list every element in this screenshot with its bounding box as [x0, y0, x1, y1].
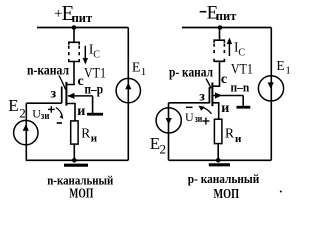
arrow inside E1 (down) right — [268, 82, 274, 88]
svg-text:E: E — [132, 61, 141, 76]
svg-text:1: 1 — [141, 66, 147, 78]
bottom rail left circuit — [26, 159, 129, 161]
wire: E1 branch left — [127, 28, 129, 161]
svg-text:R: R — [225, 126, 234, 141]
label Ic right — [234, 40, 245, 59]
svg-text:E: E — [8, 96, 18, 115]
arrow inside E2 (down) right — [166, 118, 172, 125]
wire: source lead to resistor left — [66, 104, 75, 121]
dashed box (channel region) VT1 left — [69, 42, 79, 61]
label -Eпит — [200, 3, 237, 24]
svg-text:и: и — [77, 104, 85, 119]
wire: gate lead left — [26, 102, 61, 104]
transistor VT1 gate bar right — [208, 87, 210, 103]
wire: E2 branch vertical left — [25, 103, 27, 160]
label E2 right — [150, 134, 166, 157]
substrate terminal down-wire left — [92, 96, 94, 113]
source E2 circle left — [14, 120, 38, 144]
resistor Rи left — [71, 121, 78, 144]
substrate lead with arrow (into channel) left — [68, 93, 93, 99]
arrow inside E2 (up) left — [23, 124, 29, 131]
curved arrow Uзи left — [56, 108, 63, 120]
wire: -Epit top rail right circuit — [182, 27, 271, 29]
substrate terminal down-wire right — [242, 96, 244, 107]
svg-text:зи: зи — [41, 110, 50, 122]
curved arrow Uзи right — [198, 106, 211, 114]
wire: resistor to bottom rail left — [73, 144, 75, 160]
wire: E1 branch right — [270, 28, 272, 161]
wire: gate lead right — [169, 102, 210, 104]
svg-text:p- канальный: p- канальный — [188, 172, 259, 186]
ground bar right — [209, 163, 230, 166]
pointer line from p-канал to channel — [206, 79, 211, 89]
svg-text:п–р: п–р — [85, 81, 104, 96]
wire: drain lead from box to channel — [66, 62, 74, 85]
transistor VT1 channel bar left — [65, 82, 67, 106]
current arrow Ic (down) left — [83, 46, 88, 65]
junction: drain node on +Epit rail — [72, 25, 77, 30]
plus sign of Uзи right — [202, 118, 209, 125]
wire: resistor to bottom rail right — [217, 144, 219, 161]
ground bar left — [64, 164, 88, 167]
svg-text:VT1: VT1 — [231, 62, 253, 78]
svg-text:с: с — [221, 72, 227, 87]
svg-text:VT1: VT1 — [84, 65, 106, 81]
svg-text:2: 2 — [19, 105, 26, 120]
label E2 left — [8, 96, 26, 120]
label +Eпит — [54, 1, 92, 25]
current arrow Ic (up) right — [227, 38, 232, 57]
svg-text:1: 1 — [285, 65, 291, 77]
svg-text:п–n: п–n — [231, 80, 250, 95]
substrate terminal bar right — [237, 106, 251, 109]
transistor VT1 gate bar left — [61, 87, 63, 104]
svg-text:зи: зи — [195, 113, 203, 125]
svg-text:с: с — [78, 74, 84, 89]
resistor Rи right — [214, 119, 222, 143]
junction: bottom node left — [72, 158, 77, 163]
wire: rail to dashed box — [73, 28, 75, 43]
label Uзи left — [32, 106, 50, 122]
stray period — [280, 191, 282, 193]
svg-text:МОП: МОП — [214, 187, 240, 202]
pointer line from n-канал to channel — [59, 76, 66, 90]
wire: source lead to resistor right — [212, 103, 218, 119]
label Rи right — [225, 126, 242, 145]
source E1 circle right — [258, 76, 283, 101]
junction: drain node on -Epit rail — [218, 25, 223, 30]
svg-text:R: R — [81, 126, 90, 141]
label E1 right — [276, 58, 291, 76]
svg-text:и: и — [235, 133, 242, 145]
source E1 circle left — [116, 78, 140, 102]
plus sign of Uзи left — [48, 106, 55, 113]
arrow inside E1 (up) left — [125, 83, 131, 90]
svg-text:n-канал: n-канал — [27, 64, 69, 79]
svg-text:пит: пит — [216, 9, 237, 23]
svg-text:E: E — [276, 58, 284, 73]
wire: +Epit top rail left circuit — [37, 27, 128, 29]
wire: rail to dashed box right — [219, 28, 221, 41]
label Uзи right with overline — [185, 107, 203, 125]
bottom rail right circuit — [169, 159, 272, 161]
svg-text:пит: пит — [72, 11, 93, 25]
substrate terminal bar left — [87, 113, 103, 116]
substrate lead with arrow (out of channel) right — [214, 92, 244, 98]
svg-text:C: C — [93, 50, 100, 61]
svg-text:2: 2 — [160, 142, 167, 157]
svg-text:и: и — [221, 101, 229, 116]
wire: drain lead from box to channel right — [212, 61, 219, 86]
svg-text:C: C — [238, 48, 245, 59]
svg-text:n-канальный: n-канальный — [47, 173, 113, 187]
label Ic left — [89, 41, 100, 60]
dashed box (channel region) VT1 right — [214, 40, 224, 61]
wire: E2 branch vertical right — [168, 103, 170, 161]
label E1 left — [132, 61, 146, 79]
svg-text:U: U — [185, 110, 194, 124]
label Rи left — [81, 126, 97, 145]
transistor VT1 channel bar right — [211, 83, 213, 107]
source E2 circle right — [156, 108, 181, 133]
junction: bottom node right — [216, 158, 221, 163]
svg-text:з: з — [51, 87, 57, 102]
svg-text:МОП: МОП — [69, 186, 93, 201]
minus sign of Uзи left — [57, 122, 62, 124]
svg-text:и: и — [91, 132, 98, 144]
